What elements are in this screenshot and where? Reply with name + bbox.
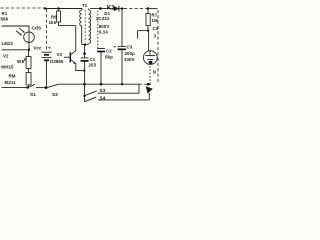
svg-text:T1: T1 (82, 3, 88, 8)
svg-text:S2: S2 (52, 92, 58, 98)
svg-text:253: 253 (89, 63, 97, 68)
svg-text:MZ11: MZ11 (5, 80, 17, 85)
svg-text:R1: R1 (2, 11, 8, 16)
svg-text:V2: V2 (3, 54, 9, 59)
svg-text:C4: C4 (153, 26, 159, 31)
svg-text:C1: C1 (90, 57, 96, 62)
svg-text:+: + (48, 46, 51, 51)
svg-text:2CZ11: 2CZ11 (96, 16, 110, 21)
svg-text:S4: S4 (100, 95, 106, 101)
svg-text:1M: 1M (152, 18, 159, 23)
svg-text:+: + (114, 44, 117, 49)
svg-text:CdS: CdS (32, 25, 42, 31)
svg-text:0.3A: 0.3A (99, 30, 109, 35)
svg-text:W1: W1 (17, 59, 24, 64)
svg-text:800V: 800V (99, 24, 110, 29)
svg-text:56p: 56p (105, 54, 113, 59)
svg-text:200µ: 200µ (125, 51, 136, 56)
svg-text:C3: C3 (127, 45, 133, 50)
svg-text:C2: C2 (106, 49, 112, 54)
svg-text:V3: V3 (57, 52, 63, 57)
svg-text:R6: R6 (51, 15, 57, 20)
svg-text:Vcc: Vcc (34, 45, 43, 50)
svg-text:56k: 56k (1, 16, 9, 21)
svg-text:RM: RM (9, 73, 16, 78)
svg-text:S1: S1 (30, 92, 36, 98)
svg-text:S3: S3 (100, 88, 106, 94)
svg-text:330V: 330V (124, 57, 135, 62)
svg-text:R7: R7 (152, 13, 158, 18)
svg-text:LED2: LED2 (2, 41, 14, 46)
svg-text:1k5: 1k5 (49, 20, 57, 25)
svg-text:D3860: D3860 (50, 59, 64, 64)
svg-text:N: N (153, 70, 156, 75)
svg-text:WH15: WH15 (1, 65, 14, 70)
